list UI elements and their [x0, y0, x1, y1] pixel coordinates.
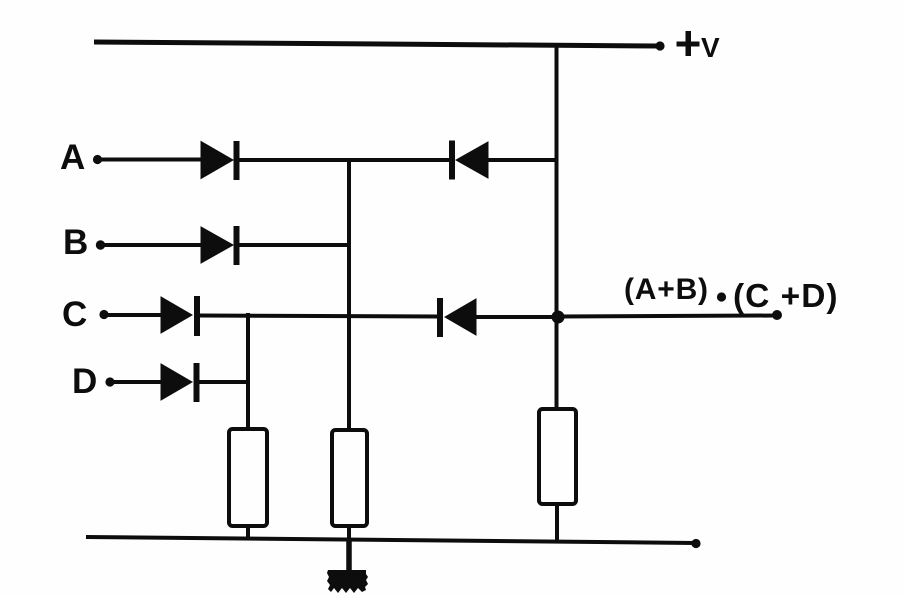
resistor R2	[332, 430, 367, 526]
svg-text:V: V	[701, 32, 720, 63]
+V label	[677, 31, 721, 63]
wire: diode D1 to diode D5	[239, 158, 450, 162]
diode D2 cathode bar	[234, 226, 240, 265]
+V rail terminal dot	[655, 41, 664, 50]
diode D4 cathode bar	[194, 363, 200, 402]
diode D1 cathode bar	[234, 141, 240, 180]
wire: input B to diode D2	[100, 243, 203, 247]
diode D6 triangle (points left)	[445, 299, 476, 335]
svg-text:B: B	[63, 223, 88, 262]
input A terminal dot	[93, 155, 102, 164]
wire: ground rail to ground symbol	[346, 540, 352, 572]
input D terminal dot	[105, 377, 114, 386]
wire: diode D5 to +V feed	[487, 158, 556, 162]
diode D1 anode triangle	[201, 142, 233, 179]
ground symbol	[327, 570, 368, 593]
output label (A+B).(C+D)	[624, 273, 839, 315]
wire: diode D2 to OR node	[239, 243, 349, 247]
diode D4 anode triangle	[161, 364, 192, 400]
diode D3 cathode bar	[194, 296, 200, 336]
diode D3 anode triangle	[161, 297, 192, 333]
vertical supply feed wire (+V to R3)	[555, 44, 559, 410]
output wire	[558, 316, 776, 317]
wire: diode D6 to output junction	[475, 315, 557, 319]
diode D5 triangle (points left)	[456, 142, 488, 178]
OR node (C+D) vertical wire	[246, 313, 250, 430]
diode D6 cathode bar	[437, 298, 443, 337]
resistor R1	[229, 429, 267, 526]
svg-text:(A+B): (A+B)	[624, 273, 709, 306]
wire: R3 to ground rail	[555, 503, 559, 542]
wire: R2 to ground rail	[347, 525, 351, 542]
+V supply rail wire	[94, 42, 659, 46]
svg-text:(C +D): (C +D)	[733, 278, 839, 315]
input C terminal dot	[99, 310, 108, 319]
wire: diode D3 to diode D6	[199, 316, 438, 317]
junction node dot	[552, 311, 565, 324]
ground rail terminal dot	[691, 539, 700, 548]
wire: input A to diode D1	[97, 158, 203, 162]
diode D5 cathode bar	[449, 141, 455, 180]
ground rail wire	[86, 537, 695, 543]
output terminal dot	[772, 310, 782, 320]
svg-text:A: A	[60, 138, 85, 177]
resistor R3	[539, 409, 576, 504]
svg-text:D: D	[72, 362, 97, 401]
wire: diode D4 to OR node (C+D)	[199, 380, 248, 384]
input B terminal dot	[96, 240, 105, 249]
svg-text:C: C	[62, 295, 87, 334]
wire: input C to diode D3	[104, 313, 163, 317]
diode D2 anode triangle	[201, 227, 233, 263]
OR node (A+B) vertical wire	[347, 158, 351, 431]
wire: input D to diode D4	[110, 380, 163, 384]
wire: R1 to ground rail	[246, 525, 250, 540]
